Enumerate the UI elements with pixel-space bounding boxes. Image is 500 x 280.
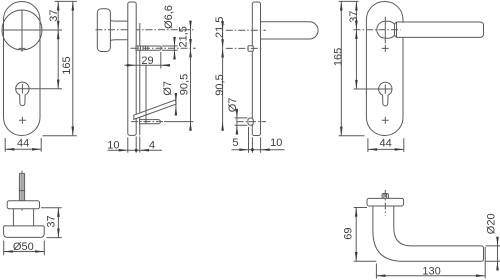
- spindle centerline: [21, 171, 23, 211]
- spindle: [19, 173, 25, 200]
- knob centerline horizontal: [2, 29, 62, 31]
- screw cross F4: [382, 45, 389, 52]
- dimension 90,5 label F2: [178, 74, 190, 95]
- euro cylinder hole F1: [16, 82, 29, 106]
- lever grip front: [395, 22, 484, 37]
- dimension O20 label F6: [486, 213, 498, 234]
- lever vertical centerline F6: [384, 190, 386, 216]
- svg-text:Ø6,6: Ø6,6: [163, 5, 175, 29]
- svg-text:90,5: 90,5: [214, 74, 226, 95]
- dimension 165 label F4: [332, 48, 344, 66]
- lever vertical centerline F4: [384, 17, 386, 44]
- svg-text:165: 165: [61, 56, 73, 74]
- dimension O20 F6: [486, 237, 500, 271]
- dimension 44 F4: [368, 138, 404, 152]
- extension line top F4: [339, 0, 359, 2]
- dimension 21,5 label F2: [178, 26, 190, 47]
- dimension 10 label F2: [107, 140, 119, 152]
- dimension 165 label F1: [61, 56, 73, 74]
- svg-text:37: 37: [48, 9, 60, 21]
- backplate F2 side view: [252, 2, 260, 136]
- svg-text:Ø20: Ø20: [486, 213, 498, 234]
- dimension 44 label F4: [379, 138, 391, 150]
- svg-text:10: 10: [270, 137, 282, 149]
- knob K1 side head: [97, 9, 110, 52]
- lever axis centerline F3: [226, 29, 266, 31]
- svg-text:69: 69: [343, 227, 355, 239]
- dimension O7 F2: [175, 93, 178, 116]
- dimension 37 line F4: [355, 1, 358, 89]
- dimension 5 and 10 F3: [232, 127, 285, 153]
- screw hole cross under knob: [19, 47, 26, 49]
- lower screw cross F4: [382, 117, 389, 124]
- svg-text:10: 10: [107, 140, 119, 152]
- dimension 37 label F5: [45, 215, 57, 227]
- dimension O50 label F5: [13, 241, 34, 253]
- knob centerline vertical: [21, 10, 23, 52]
- backplate F2 front: [366, 2, 403, 136]
- dimension 69 label F6: [343, 227, 355, 239]
- lower fixing screw side: [140, 120, 161, 124]
- dimension 44 label F1: [17, 138, 29, 150]
- lower screw extension to dim: [164, 121, 194, 123]
- dimension 5 label F3: [232, 137, 238, 149]
- lever neck divider: [396, 22, 398, 37]
- knob base: [4, 226, 45, 238]
- upper fixing screw side: [136, 46, 161, 50]
- lever rose front: [377, 21, 397, 38]
- dimension O7 F3: [235, 109, 248, 135]
- backplate side layer line: [139, 23, 141, 135]
- dimension 165 line F1: [72, 1, 75, 135]
- dimension 130 F6: [376, 247, 485, 279]
- dimension 37 label F4: [348, 11, 360, 23]
- dimension O7 label F3: [227, 98, 239, 113]
- cylinder centerline vertical: [21, 84, 23, 93]
- svg-text:Ø7: Ø7: [227, 98, 239, 113]
- dimension O6,6 label: [163, 5, 175, 29]
- dimension 4 label F2: [149, 140, 155, 152]
- dimension 21,5 and 90,5 line F3: [221, 21, 224, 131]
- svg-text:90,5: 90,5: [178, 74, 190, 95]
- dimension 37 line F1: [57, 1, 60, 88]
- upper screw centerline: [131, 47, 196, 49]
- svg-text:37: 37: [348, 11, 360, 23]
- spindle nub F6: [382, 194, 388, 199]
- dimension 130 label F6: [422, 265, 440, 277]
- upper screw centerline F3: [226, 47, 263, 49]
- knob K1 front circle: [2, 10, 42, 50]
- svg-text:Ø50: Ø50: [13, 241, 34, 253]
- svg-text:44: 44: [17, 138, 29, 150]
- dimension 165 line F4: [340, 1, 343, 135]
- knob axis centerline side: [96, 29, 196, 31]
- lever grip side view: [261, 22, 318, 39]
- dimension O6,6 F2: [162, 37, 178, 60]
- svg-text:21,5: 21,5: [178, 26, 190, 47]
- knob neck lines: [110, 21, 128, 41]
- lower screw centerline: [131, 121, 165, 123]
- svg-text:37: 37: [45, 215, 57, 227]
- vertical witness line F2: [145, 65, 147, 124]
- backplate F1 side view: [128, 2, 136, 135]
- extension line top F1: [55, 0, 77, 2]
- svg-text:4: 4: [149, 140, 155, 152]
- dimension 10 label F3: [270, 137, 282, 149]
- svg-text:44: 44: [379, 138, 391, 150]
- svg-text:130: 130: [422, 265, 440, 277]
- dimension O50 F5: [4, 241, 45, 256]
- dimension 44 F1: [5, 138, 41, 152]
- lever axis centerline F4: [354, 29, 401, 31]
- extension line bottom F1: [43, 135, 77, 137]
- upper screw head F3: [248, 46, 253, 52]
- dimension 69 F6: [354, 208, 377, 262]
- svg-text:Ø7: Ø7: [162, 81, 174, 96]
- dimension 37 label F1: [48, 9, 60, 21]
- svg-text:21,5: 21,5: [214, 17, 226, 38]
- dimension 90,5 label F3: [214, 74, 226, 95]
- cylinder centerline horizontal: [16, 88, 63, 90]
- backplate F1: [4, 2, 41, 136]
- svg-text:5: 5: [232, 137, 238, 149]
- extension line bottom F4: [339, 135, 365, 137]
- dimension 29 label: [141, 55, 153, 67]
- euro cylinder hole F4: [379, 82, 392, 106]
- diagonal screw O7: [134, 100, 176, 120]
- lower screw centerline F3: [237, 121, 267, 123]
- dimension 29 F2: [124, 52, 170, 69]
- dimension O7 label F2: [162, 81, 174, 96]
- cylinder centerline vertical F4: [384, 84, 386, 93]
- dimension 37 F5: [41, 208, 62, 238]
- svg-text:29: 29: [141, 55, 153, 67]
- dimension 10 and 4 F2: [108, 137, 163, 153]
- dimension 21,5 and 90,5 line F2: [189, 21, 192, 131]
- lever flange F6: [367, 198, 404, 206]
- lower screw cross F1: [19, 117, 26, 124]
- dimension 21,5 label F3: [214, 17, 226, 38]
- knob flange: [7, 201, 39, 209]
- knob neck side: [13, 209, 33, 226]
- lever handle profile: [373, 206, 484, 261]
- cylinder centerline horizontal F4: [354, 88, 393, 90]
- lower screw head F3: [248, 118, 253, 125]
- svg-text:165: 165: [332, 48, 344, 66]
